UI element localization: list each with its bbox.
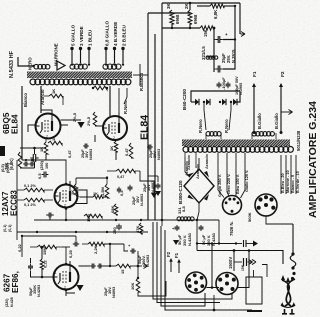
resistor 0.1 2% upper xyxy=(24,184,44,192)
node output terminal 2 B.BLEU xyxy=(121,24,126,63)
label 6267 EF86 xyxy=(3,271,21,293)
ground chassis feedback xyxy=(143,264,148,269)
wire Bleu 150 V. xyxy=(236,153,240,197)
wire nest outer xyxy=(153,222,232,299)
socket SC power tube xyxy=(186,272,207,293)
wire Arancio bridge 1 xyxy=(185,155,191,177)
svg-text:N.4283: N.4283 xyxy=(187,232,192,246)
svg-text:MARRONE: MARRONE xyxy=(54,43,59,66)
wire feedback node xyxy=(130,265,142,268)
transformer T2 secondary coil group 1 xyxy=(34,64,50,69)
capacitor line filter 1 xyxy=(235,240,258,247)
svg-text:100: 100 xyxy=(45,163,49,169)
svg-text:0,22: 0,22 xyxy=(43,259,48,268)
node output terminal 3 VERDE xyxy=(79,26,84,63)
resistor 15 feedback xyxy=(116,264,130,274)
wire bus 220 xyxy=(34,218,219,222)
tube V3 12AX7 xyxy=(55,181,88,210)
svg-text:0,22: 0,22 xyxy=(17,243,22,252)
svg-text:R.Nero: R.Nero xyxy=(198,119,203,133)
svg-text:68K: 68K xyxy=(110,206,115,213)
capacitor input pair xyxy=(1,162,35,174)
svg-text:(250): (250) xyxy=(40,160,44,170)
resistor R dropping 2K xyxy=(184,3,198,24)
resistor 1K follower xyxy=(80,192,108,199)
svg-text:2K: 2K xyxy=(184,3,189,9)
label B300-C120 xyxy=(178,180,183,204)
resistor 0.22 vert xyxy=(40,246,47,269)
diode D4 xyxy=(230,99,237,105)
svg-text:6968: 6968 xyxy=(193,14,198,24)
capacitor 25uF 30V N4003 EF86 xyxy=(79,264,117,299)
svg-text:15M: 15M xyxy=(86,214,91,222)
capacitor 25uF 30V N4003 V2 xyxy=(67,144,93,161)
svg-text:2: 2 xyxy=(113,136,115,140)
resistor cathode 38K xyxy=(4,152,22,170)
label transformer N.5433 HF xyxy=(9,50,15,78)
svg-text:5 GIALLO: 5 GIALLO xyxy=(71,24,76,46)
svg-text:0,25: 0,25 xyxy=(68,249,73,258)
label B60-C200 xyxy=(182,89,187,110)
wire EF86 plate xyxy=(62,236,124,267)
capacitor 25uF 30V N.4003 xyxy=(128,185,145,206)
svg-text:N.4283: N.4283 xyxy=(146,255,150,267)
wire fuse F1 arrow xyxy=(174,252,181,273)
cord arrows xyxy=(281,275,290,282)
capacitor 50uF 360V xyxy=(124,243,150,267)
resistor 0.47 horizontal xyxy=(107,169,140,179)
wire Bianco lead xyxy=(22,86,28,160)
svg-text:N.4003: N.4003 xyxy=(151,181,155,193)
wire tap Arancio 2 xyxy=(195,153,200,179)
label 7926 N. xyxy=(229,221,234,236)
svg-text:EF86,: EF86, xyxy=(11,271,20,293)
svg-text:(0,5): (0,5) xyxy=(1,163,5,172)
wire R.Nero left xyxy=(198,102,206,133)
svg-text:Bianco - 0: Bianco - 0 xyxy=(291,175,295,193)
svg-text:NERO: NERO xyxy=(28,57,33,70)
wire mid bus 160 xyxy=(22,159,66,183)
wire third vertical xyxy=(161,3,163,220)
wire Bianco-0 xyxy=(291,155,295,194)
svg-text:500K: 500K xyxy=(247,212,252,222)
node output terminal 6,8 GIALLO xyxy=(104,21,109,63)
resistor 1.5M input xyxy=(30,245,62,255)
wire R.Nero lead xyxy=(123,88,128,114)
wire feedback bus xyxy=(100,265,116,267)
svg-text:EL84: EL84 xyxy=(11,114,20,134)
wire Grigio 280 V. xyxy=(218,153,224,198)
wire input bus 2 xyxy=(21,235,76,257)
wire plate rail xyxy=(133,74,148,76)
small text bottom left xyxy=(5,297,14,307)
capacitor 25uF 30V right xyxy=(147,145,161,161)
wire screen rail xyxy=(148,2,191,13)
svg-text:0,5: 0,5 xyxy=(119,190,124,196)
wire mains right drop xyxy=(292,224,294,255)
svg-text:F2: F2 xyxy=(280,71,286,77)
label 5011/N238 xyxy=(296,130,301,151)
node edge mark xyxy=(0,146,5,156)
resistor 68K xyxy=(110,204,118,215)
fuse F1 lead xyxy=(252,71,262,134)
wire socket D right xyxy=(238,249,250,287)
resistor 15M xyxy=(84,214,102,222)
svg-text:Arancio: Arancio xyxy=(204,154,209,169)
svg-text:N4003: N4003 xyxy=(157,149,161,160)
transformer T1 heater winding xyxy=(206,132,221,139)
label 500K xyxy=(247,212,252,222)
svg-text:0,47: 0,47 xyxy=(117,175,124,179)
svg-text:15K: 15K xyxy=(203,29,208,37)
wire rectifier rail top xyxy=(195,90,240,92)
svg-text:2%,5: 2%,5 xyxy=(86,116,91,126)
svg-text:1: 1 xyxy=(55,271,57,275)
svg-text:Bleu 150 V.: Bleu 150 V. xyxy=(236,174,240,194)
svg-text:1K: 1K xyxy=(51,136,56,141)
resistor screen common 1K xyxy=(92,86,108,90)
wire B+ drops xyxy=(162,219,198,243)
svg-text:2: 2 xyxy=(64,204,66,208)
svg-text:-100µF: -100µF xyxy=(221,77,226,90)
wire diode row xyxy=(191,91,240,102)
capacitor 0.5 coupling V1 xyxy=(37,172,48,180)
transformer T2 primary winding xyxy=(30,79,131,85)
svg-text:1K: 1K xyxy=(109,146,114,151)
svg-text:15M: 15M xyxy=(42,247,47,255)
svg-text:N.4003: N.4003 xyxy=(140,194,144,206)
wire Arancio lead xyxy=(40,86,45,113)
svg-text:B300-C120: B300-C120 xyxy=(178,180,183,204)
svg-text:1: 1 xyxy=(104,122,106,126)
wire B.Verde-15 xyxy=(296,155,300,194)
svg-text:6,8 GIALLO: 6,8 GIALLO xyxy=(105,21,110,46)
node output terminal 1 BLEU xyxy=(87,29,92,63)
svg-text:(0,25): (0,25) xyxy=(6,162,10,173)
wire feedback to nest xyxy=(138,281,166,296)
tube V1 EL84 xyxy=(36,110,61,139)
capacitor 50uF 25V N.4283 xyxy=(28,258,54,297)
svg-text:(0,1): (0,1) xyxy=(8,224,12,232)
capacitor 100uF 50V N.3905 xyxy=(217,76,244,95)
svg-text:(220): (220) xyxy=(5,298,9,307)
wire R.Nero right xyxy=(224,102,231,133)
resistor 1K top xyxy=(48,136,62,145)
resistor 10K feedback xyxy=(130,266,140,292)
power cord twisted xyxy=(282,279,295,306)
mains plug xyxy=(281,302,296,314)
svg-text:2: 2 xyxy=(46,135,48,139)
transformer T1 HT winding xyxy=(252,132,276,139)
wire nest 2 xyxy=(157,222,220,303)
svg-text:F1: F1 xyxy=(174,252,179,258)
ground chassis near F2 xyxy=(281,110,293,115)
socket SA rectifier xyxy=(223,196,242,215)
svg-text:321/L5: 321/L5 xyxy=(201,46,206,60)
wire resistor bottoms xyxy=(162,24,200,29)
transformer T2 secondary coil group 3 xyxy=(103,63,124,69)
resistor 1.5M xyxy=(100,176,109,198)
svg-text:N.4283: N.4283 xyxy=(37,285,41,297)
resistor 2.2K xyxy=(82,242,110,254)
fuse F2 lead xyxy=(274,71,286,134)
capacitor 25uF 25V N.3915 xyxy=(214,32,236,63)
transformer T2 secondary coil group 2 xyxy=(70,63,90,69)
svg-text:N.428: N.428 xyxy=(10,297,14,307)
svg-text:0,47: 0,47 xyxy=(124,147,129,156)
label EL84 big xyxy=(139,115,151,140)
svg-text:0,5: 0,5 xyxy=(37,173,42,179)
svg-text:0,1 2%: 0,1 2% xyxy=(24,203,36,207)
wire bus to filter1 xyxy=(196,220,236,245)
svg-text:10K: 10K xyxy=(130,283,135,290)
svg-text:3K: 3K xyxy=(166,3,171,9)
wire V1 plate stub xyxy=(28,125,68,132)
ground arrow mid xyxy=(140,171,157,198)
label 0.22 input xyxy=(17,243,22,252)
svg-text:+: + xyxy=(225,32,228,37)
svg-text:R.Nero: R.Nero xyxy=(224,119,229,133)
transformer T2 core xyxy=(21,72,139,79)
wire Marrone-10 xyxy=(286,155,290,194)
svg-text:3 VERDE: 3 VERDE xyxy=(79,26,84,46)
resistor R dropping 3K xyxy=(166,3,180,24)
capacitor 0.1 V3 xyxy=(46,213,54,218)
svg-text:Nero 220 V.: Nero 220 V. xyxy=(227,174,231,194)
wire V1 cathode bus xyxy=(20,147,46,168)
wire nest left feeds xyxy=(138,295,166,297)
capacitor cathode 100uF xyxy=(30,154,49,170)
wire B+ top rail xyxy=(162,2,240,4)
capacitor 50uF filter 2 xyxy=(214,66,226,91)
wire mains feed xyxy=(197,244,283,265)
wire Arancio bridge 2 xyxy=(199,154,209,169)
svg-text:2 B.BLEU: 2 B.BLEU xyxy=(122,24,127,46)
label 6BQ5 EL84 xyxy=(2,112,20,134)
wire V2 grid stub xyxy=(95,126,116,160)
svg-text:Bianco: Bianco xyxy=(23,93,28,107)
svg-text:1: 1 xyxy=(37,120,39,124)
svg-text:2,2K: 2,2K xyxy=(93,245,98,254)
choke 321/L5 xyxy=(201,46,218,60)
resistor 6,8K xyxy=(197,4,236,19)
ground arrow EF86 xyxy=(66,285,84,296)
wire fuse F2 arrow xyxy=(166,251,173,272)
svg-text:R.Nero: R.Nero xyxy=(123,100,128,114)
wire V2 plate lead xyxy=(110,86,119,116)
svg-text:Giallo 120 V.: Giallo 120 V. xyxy=(245,170,249,192)
capacitor 25uF 30V N.4003 rail xyxy=(143,176,161,196)
resistor 1K grid V2 xyxy=(109,141,118,152)
resistor 1K screen V1 xyxy=(44,89,63,105)
resistor 15K xyxy=(195,26,214,37)
svg-text:0,1 2%: 0,1 2% xyxy=(24,184,36,188)
svg-text:1K: 1K xyxy=(70,190,75,195)
label 0,1 bottom xyxy=(3,224,12,232)
svg-text:B.Giallo: B.Giallo xyxy=(274,113,279,129)
svg-text:4 B.VERDE: 4 B.VERDE xyxy=(113,22,118,46)
wire input bus top xyxy=(17,231,148,233)
resistor 47K right xyxy=(135,223,143,234)
svg-text:1K: 1K xyxy=(93,192,98,196)
capacitor 0.25 input xyxy=(68,242,79,259)
resistor 0.47 vert xyxy=(124,143,133,158)
capacitor line filter 2 1500V xyxy=(228,249,256,271)
wire Giallo 120 V. xyxy=(241,153,250,198)
svg-text:Marrone - 10: Marrone - 10 xyxy=(286,170,290,193)
svg-text:AMPLIFICATORE G.234: AMPLIFICATORE G.234 xyxy=(307,101,319,218)
socket SB power xyxy=(255,194,277,216)
resistor 1K grid V1 xyxy=(39,139,48,155)
tube V2 EL84 xyxy=(103,113,127,141)
svg-text:250: 250 xyxy=(112,227,117,234)
diode D1 xyxy=(195,99,199,105)
label 12AX7 ECC83 xyxy=(1,190,19,216)
wire B.Bleu-20 xyxy=(281,155,285,194)
capacitor 50uF 350V N.4283 b xyxy=(199,225,217,246)
svg-text:2%,5: 2%,5 xyxy=(72,112,77,122)
svg-text:B.Verde - 15: B.Verde - 15 xyxy=(296,171,300,193)
wire nest 3 xyxy=(161,226,205,306)
wire grid V3 xyxy=(17,160,53,240)
wire bridge output xyxy=(197,203,199,220)
wire MARRONE lead xyxy=(54,43,66,70)
resistor 2% 10 V2 xyxy=(61,112,97,128)
svg-text:1500V: 1500V xyxy=(228,257,233,269)
svg-text:B60-C200: B60-C200 xyxy=(182,89,187,110)
wire R.Bianco lead xyxy=(139,64,144,91)
node output terminal 5 GIALLO xyxy=(70,24,75,63)
wire tap Arancio 1 xyxy=(184,153,189,176)
svg-text:1K: 1K xyxy=(51,89,56,94)
capacitor 250 xyxy=(112,224,122,234)
svg-text:N4003: N4003 xyxy=(89,149,93,160)
capacitor 50uF 350V N.4283 a xyxy=(172,225,192,246)
svg-text:B.Giallo: B.Giallo xyxy=(257,113,262,129)
wire nest 4 xyxy=(165,230,252,311)
node output terminal 4 B.VERDE xyxy=(113,22,118,63)
svg-text:6968: 6968 xyxy=(175,14,180,24)
transformer T1 primary winding xyxy=(183,147,293,153)
wire V3 cathode xyxy=(65,209,67,221)
label AMPLIFICATORE G.234 xyxy=(307,101,319,218)
wire V1 bottom xyxy=(45,154,47,160)
diode D3 xyxy=(219,99,226,105)
ground arrow F area xyxy=(173,240,179,245)
wire socket A drop xyxy=(211,242,214,289)
wire socket B drop xyxy=(266,216,293,224)
svg-text:7926 N.: 7926 N. xyxy=(229,221,234,236)
ground chassis top right xyxy=(240,3,245,37)
resistor 0.1 2% lower xyxy=(24,198,44,207)
wire NERO lead xyxy=(18,57,35,70)
capacitor 0.5 V3 xyxy=(117,187,124,196)
wire second vertical xyxy=(154,34,156,220)
tube V4 EF86 xyxy=(54,261,79,291)
resistor 1K plate V3 xyxy=(70,177,108,196)
svg-text:EL84: EL84 xyxy=(139,115,151,140)
svg-text:5011/N238: 5011/N238 xyxy=(296,130,301,151)
wire sockets link xyxy=(207,287,220,289)
diode D2 xyxy=(203,99,210,105)
svg-text:0,47: 0,47 xyxy=(67,149,72,158)
cord loop xyxy=(290,252,296,280)
svg-text:6,8K: 6,8K xyxy=(213,9,218,19)
svg-text:N4003: N4003 xyxy=(112,287,116,298)
bridge rectifier B300-C120 xyxy=(184,169,214,203)
svg-text:/L5: /L5 xyxy=(181,205,186,212)
switch box xyxy=(246,265,267,312)
wire Nero 220 V. xyxy=(227,153,231,196)
svg-text:15K: 15K xyxy=(241,264,245,271)
svg-text:F1: F1 xyxy=(252,71,258,77)
svg-text:N.5433 HF: N.5433 HF xyxy=(9,50,15,78)
svg-text:1 BLEU: 1 BLEU xyxy=(88,29,93,46)
svg-text:Arancio: Arancio xyxy=(186,155,191,170)
wire to filter xyxy=(213,27,216,72)
wire left vertical feedback xyxy=(147,13,149,220)
svg-text:15: 15 xyxy=(120,269,125,274)
svg-text:F2: F2 xyxy=(166,251,171,257)
choke 321/L5 main xyxy=(177,205,194,220)
svg-text:(0,1): (0,1) xyxy=(3,224,7,232)
transformer T1 core xyxy=(176,140,297,147)
socket SD power tube xyxy=(216,273,238,295)
svg-text:1,5M: 1,5M xyxy=(100,186,105,196)
svg-text:B.Bleu - 20: B.Bleu - 20 xyxy=(281,173,285,193)
wire filter drop xyxy=(223,6,236,69)
svg-text:1: 1 xyxy=(56,190,58,194)
